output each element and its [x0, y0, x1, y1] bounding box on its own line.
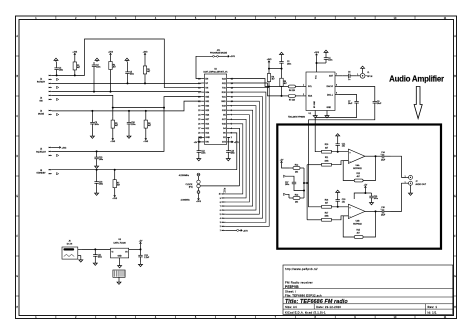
pin 6 U1 GND — [326, 111, 328, 115]
pin 11 U2 right G21 — [227, 96, 230, 98]
capacitor C2 — [279, 56, 291, 69]
svg-text:4k7: 4k7 — [117, 185, 120, 187]
pin 17 U2 left VP — [201, 82, 204, 84]
wire outB to jack — [391, 183, 407, 211]
svg-text:2: 2 — [231, 137, 232, 139]
svg-text:10n: 10n — [342, 146, 345, 148]
wire JP1 net — [218, 55, 226, 57]
svg-text:100n: 100n — [374, 198, 378, 200]
frame column tick 1 — [55, 16, 57, 20]
svg-text:R12: R12 — [356, 173, 359, 175]
wire SQUELCH net — [52, 97, 202, 152]
svg-text:1: 1 — [357, 74, 358, 76]
svg-text:100n: 100n — [201, 152, 205, 154]
pin 19 U2 left G34 — [201, 91, 204, 93]
svg-text:R17: R17 — [325, 212, 328, 214]
svg-text:Rev: 1: Rev: 1 — [428, 305, 438, 309]
pin 1 J3 — [49, 95, 52, 96]
pin 29 U2 left GND — [201, 136, 204, 138]
pin 24 U2 left G26 — [201, 114, 204, 116]
svg-text:PROGRAM MODE: PROGRAM MODE — [210, 52, 228, 55]
svg-text:24: 24 — [198, 115, 200, 117]
junction — [128, 110, 130, 112]
wire R5 tie — [113, 107, 164, 109]
audio amplifier section box — [277, 125, 441, 249]
svg-text:R12: R12 — [295, 164, 298, 166]
capacitor C19 — [369, 193, 378, 201]
no-connect arrow — [57, 173, 59, 175]
svg-text:Title: TEF6686 FM radio: Title: TEF6686 FM radio — [285, 299, 348, 305]
power +3V3 — [108, 52, 114, 57]
power +3V3 — [72, 52, 78, 57]
wire jack gnd — [410, 185, 412, 191]
pin 1 J2 — [49, 75, 52, 76]
resistor R2 — [109, 57, 116, 92]
pin 13 U2 right TX0 — [227, 87, 230, 89]
svg-text:KiCad E.D.A. kicad (5.1.9)-1: KiCad E.D.A. kicad (5.1.9)-1 — [285, 310, 326, 314]
module U2 DOIT_ESP32_DEVKIT_V1 — [203, 69, 228, 145]
svg-text:J1: J1 — [367, 72, 369, 74]
wire R10 to +inA — [331, 151, 348, 153]
capacitor C11 — [336, 138, 346, 152]
wire bus7 U2-J8 — [226, 97, 263, 219]
svg-text:9: 9 — [220, 198, 221, 200]
pin 6 U2 right G17 — [227, 118, 230, 120]
junction — [140, 248, 142, 250]
junction — [303, 190, 305, 192]
resistor R13 — [289, 194, 304, 203]
wire bus9 U2-J8 — [226, 88, 270, 227]
no-connect arrow — [57, 154, 59, 156]
wire SCL from U2 — [230, 79, 282, 87]
capacitor C10 — [127, 111, 136, 135]
connector J2 ROTARY — [37, 79, 46, 84]
pin 9 U2 right G19 — [227, 105, 230, 107]
wire STANDBY drop — [230, 133, 237, 170]
svg-text:VIN: VIN — [205, 142, 209, 144]
resistor R12 — [289, 164, 304, 173]
svg-text:100n: 100n — [98, 256, 102, 258]
svg-text:4k7: 4k7 — [284, 83, 287, 85]
pin 5 J8 — [222, 213, 226, 215]
svg-text:100n: 100n — [99, 183, 103, 185]
junction — [364, 192, 366, 194]
wire ROTARY-A net — [52, 39, 202, 88]
wire to C1 — [317, 62, 327, 64]
svg-text:DAC-R: DAC-R — [327, 85, 334, 88]
jumper P2 CLOCK — [186, 180, 201, 189]
svg-text:100n: 100n — [99, 159, 103, 161]
pin 30 U2 left VIN — [201, 141, 204, 143]
junction — [163, 107, 165, 109]
junction — [91, 110, 93, 112]
svg-text:23: 23 — [198, 110, 200, 112]
pin 4 J8 — [222, 217, 226, 219]
pin 7 J8 — [222, 205, 226, 207]
ground — [324, 50, 328, 54]
capacitor C16 — [376, 207, 391, 216]
svg-text:28: 28 — [198, 133, 200, 135]
svg-text:J7: J7 — [416, 181, 418, 183]
module U1 TEF6686 radio — [288, 72, 335, 118]
pin 4 J2 — [49, 87, 52, 88]
frame column tick 2 — [95, 16, 97, 20]
ground — [313, 114, 317, 118]
wire outB — [365, 210, 376, 212]
pin 23 U2 left G25 — [201, 109, 204, 111]
svg-text:20k: 20k — [295, 171, 298, 173]
svg-text:100n: 100n — [231, 152, 235, 154]
port arrow AF-L — [284, 175, 286, 177]
connector J6 DC IN barrel jack — [62, 240, 78, 259]
pin 2 J9 — [49, 173, 52, 174]
capacitor C4 — [92, 62, 101, 92]
resistor R17 — [322, 212, 332, 221]
pin 4 U2 right G4 — [227, 127, 230, 129]
resistor R9 — [280, 69, 287, 96]
ground — [336, 190, 340, 194]
junction — [281, 95, 283, 97]
svg-text:4k7: 4k7 — [325, 147, 328, 149]
pin 7 U2 right G5 — [227, 114, 230, 116]
svg-text:4.2156MHz: 4.2156MHz — [179, 175, 189, 177]
svg-text:17: 17 — [198, 83, 200, 85]
svg-text:100n: 100n — [59, 70, 63, 72]
svg-text:8: 8 — [336, 85, 337, 87]
resistor R5 — [111, 116, 118, 136]
wire bus8 U2-J8 — [226, 92, 266, 222]
wire Vin — [82, 248, 111, 250]
port arrow AF-R — [284, 193, 286, 195]
ground — [54, 58, 58, 62]
frame column tick 8 — [334, 16, 336, 20]
pin 21 U2 left G32 — [201, 100, 204, 102]
pin 7 U1 ANT — [335, 75, 339, 77]
resistor R7 — [113, 170, 120, 194]
svg-text:1: 1 — [220, 230, 221, 232]
junction — [316, 62, 318, 64]
wire ROTARY-B net — [52, 82, 202, 84]
wire DAC-R into amp — [309, 108, 375, 207]
frame row tick B — [16, 95, 20, 97]
svg-text:100n: 100n — [131, 124, 135, 126]
ground — [409, 192, 413, 196]
svg-text:7: 7 — [336, 74, 337, 76]
no-connect arrow — [57, 86, 59, 88]
capacitor C15 — [94, 151, 103, 164]
wire ROTARY-C net — [52, 91, 202, 93]
wire MODE net — [52, 101, 202, 111]
wire C17 low — [294, 187, 304, 191]
pin 3 J5 — [49, 155, 52, 156]
wire bus3 U2-J8 — [226, 115, 250, 202]
ground — [90, 135, 94, 139]
junction — [281, 68, 283, 70]
capacitor C22 — [138, 249, 150, 262]
wire fbB return — [363, 211, 375, 237]
wire bias to R17 — [307, 219, 322, 221]
svg-text:1: 1 — [303, 85, 304, 87]
svg-text:Id: 1/1: Id: 1/1 — [428, 310, 437, 314]
wire fbB — [343, 216, 354, 237]
pin 1 J5 — [49, 147, 52, 148]
svg-text:R16: R16 — [325, 199, 328, 201]
junction — [94, 248, 96, 250]
wire bias chain — [303, 168, 305, 198]
svg-text:4k7: 4k7 — [325, 203, 328, 205]
svg-text:MCP6022: MCP6022 — [353, 168, 361, 170]
frame row tick G — [16, 295, 20, 297]
jumper pad — [237, 229, 239, 231]
pin 5 U1 BP-GND — [314, 111, 316, 115]
power +3V3 — [314, 52, 320, 57]
svg-text:GND: GND — [205, 137, 210, 139]
svg-text:C6: C6 — [348, 72, 350, 74]
power +3V3 — [143, 137, 149, 144]
capacitor C14 — [376, 152, 391, 161]
pin U3 gnd — [119, 258, 121, 264]
svg-text:BP-GND: BP-GND — [314, 100, 316, 108]
power +3V3 — [196, 197, 202, 204]
connector J3 SW — [39, 98, 43, 103]
frame column tick 6 — [254, 16, 256, 20]
svg-text:4k7: 4k7 — [77, 67, 80, 69]
power +5V — [199, 141, 202, 143]
wire STANDBY net — [52, 169, 237, 171]
frame row tick A — [16, 55, 20, 57]
pin 18 U2 left VN — [201, 87, 204, 89]
ground — [95, 165, 99, 169]
capacitor C18 — [336, 194, 346, 207]
junction — [306, 182, 308, 184]
wire fbA — [343, 161, 354, 181]
resistor R16 — [322, 199, 332, 208]
ground — [197, 157, 201, 161]
crystal Y1 4.2156MHz — [179, 173, 200, 180]
svg-text:Size: A4: Size: A4 — [285, 305, 297, 309]
pin 2 J6 — [78, 255, 81, 257]
svg-text:File: TEF6686 ESP32.sch: File: TEF6686 ESP32.sch — [285, 293, 322, 297]
wire +5V bias — [282, 165, 290, 169]
svg-text:4k7: 4k7 — [357, 176, 360, 178]
ground — [93, 262, 97, 266]
resistor R10 — [322, 144, 332, 153]
crystal Y2 4.000MHz — [181, 188, 200, 202]
svg-text:3: 3 — [220, 222, 221, 224]
resistor R1 — [73, 57, 80, 76]
svg-text:4k7: 4k7 — [115, 125, 118, 127]
pin 1 J6 — [78, 248, 82, 250]
svg-text:18: 18 — [198, 87, 200, 89]
wire bias tap — [304, 182, 307, 184]
junction — [56, 74, 58, 76]
svg-text:[P2]: [P2] — [189, 187, 193, 189]
frame column tick 9 — [374, 16, 376, 20]
power +3V3 — [239, 229, 249, 232]
junction — [112, 107, 114, 109]
ground — [118, 264, 122, 268]
ground — [226, 157, 230, 161]
svg-text:GND: GND — [221, 101, 226, 103]
svg-text:Audio Amplifier: Audio Amplifier — [389, 75, 444, 84]
junction — [96, 150, 98, 152]
junction — [114, 169, 116, 171]
wire R11 to -inA — [331, 161, 348, 165]
pin 2 U2 right G2 — [227, 136, 230, 138]
svg-text:19: 19 — [198, 92, 200, 94]
power +3V3 — [112, 194, 118, 201]
wire DAC-L into amp — [315, 108, 356, 152]
wire SDA from U2 — [230, 83, 282, 96]
svg-text:DOIT_ESP32_DEVKIT_V1: DOIT_ESP32_DEVKIT_V1 — [203, 72, 228, 74]
power +5V — [364, 185, 368, 190]
pin 12 U2 right RX0 — [227, 91, 230, 93]
capacitor C3 — [54, 62, 63, 75]
pin 27 U2 left G12 — [201, 127, 204, 129]
svg-text:4k7: 4k7 — [113, 66, 116, 68]
pin 10 J8 — [222, 193, 226, 195]
wire fbA return — [363, 156, 375, 180]
svg-text:GND: GND — [118, 255, 123, 257]
pin 20 U2 left G35 — [201, 96, 204, 98]
pin 1 J4 — [49, 110, 52, 111]
no-connect arrow — [57, 98, 59, 100]
wire bus4 U2-J8 — [226, 110, 253, 206]
wire 5V out — [140, 246, 142, 250]
title block text — [285, 267, 437, 315]
pin 16 U2 left EN — [201, 78, 204, 80]
junction — [375, 210, 377, 212]
junction — [144, 82, 146, 84]
svg-text:G: G — [454, 275, 456, 278]
svg-text:2: 2 — [303, 94, 304, 96]
svg-text:22: 22 — [198, 106, 200, 108]
wire outA — [365, 155, 376, 157]
svg-text:100n: 100n — [96, 67, 100, 69]
regulator U3 LM78 TO220 — [111, 239, 129, 258]
connector J8 STANDBY — [36, 170, 46, 175]
pin 1 U2 right 3V3 — [227, 141, 230, 143]
connector J1 RF IN — [356, 72, 373, 78]
svg-text:2: 2 — [220, 226, 221, 228]
svg-text:2: 2 — [405, 182, 406, 184]
svg-text:R7 220: R7 220 — [289, 99, 295, 101]
svg-text:MCP6022: MCP6022 — [353, 223, 361, 225]
ground — [336, 134, 340, 138]
pin 2 J8 — [222, 225, 226, 227]
power GND arrow left — [199, 136, 201, 138]
svg-text:8: 8 — [220, 202, 221, 204]
ground — [280, 52, 284, 56]
power +5V — [280, 160, 284, 165]
junction — [110, 91, 112, 93]
svg-text:PE5PVB: PE5PVB — [285, 285, 299, 289]
wire 3V3 pullup drop — [268, 64, 270, 69]
big hollow arrow — [414, 87, 422, 119]
svg-text:http://www.pe5pvb.nl/: http://www.pe5pvb.nl/ — [285, 267, 318, 271]
svg-text:6: 6 — [220, 210, 221, 212]
frame row tick E — [16, 215, 20, 217]
pin 5 J2 — [49, 91, 52, 92]
title block — [283, 265, 453, 314]
svg-text:AUDIO OUT: AUDIO OUT — [416, 183, 427, 186]
svg-text:C: C — [454, 115, 456, 118]
svg-text:10n: 10n — [342, 201, 345, 203]
frame column tick 3 — [135, 16, 137, 20]
wire CLOCK net — [200, 185, 239, 187]
svg-text:C16: C16 — [381, 207, 384, 209]
wire bus1 U2-J8 — [226, 124, 243, 194]
pin 9 J8 — [222, 197, 226, 199]
junction — [337, 206, 339, 208]
wire V+ U4B — [354, 193, 365, 199]
connector J5 SQUELCH — [36, 149, 46, 154]
no-connect arrow — [57, 113, 59, 115]
wire bus5 U2-J8 — [226, 106, 256, 210]
junction — [303, 182, 305, 184]
svg-text:100k: 100k — [324, 216, 328, 218]
svg-text:R4 220: R4 220 — [289, 90, 295, 92]
svg-text:R11: R11 — [325, 157, 328, 159]
wire outA to jack — [391, 156, 407, 177]
power +3V3 — [58, 146, 68, 149]
wire DAC-R — [339, 87, 375, 97]
svg-text:SQUELCH: SQUELCH — [36, 151, 46, 153]
wire VCC U1 — [316, 57, 318, 68]
capacitor C13 — [226, 146, 235, 157]
power +5V — [139, 241, 143, 246]
frame row tick C — [16, 135, 20, 137]
svg-text:2.2uF: 2.2uF — [144, 257, 150, 259]
pin 8 U1 DAC-R — [335, 86, 339, 88]
capacitor C17 — [285, 179, 296, 187]
svg-text:DAC-L: DAC-L — [327, 93, 334, 96]
resistor R4 — [282, 85, 302, 92]
svg-text:TD6-230V HP6686: TD6-230V HP6686 — [288, 116, 306, 118]
resistor R14 — [354, 173, 363, 182]
pin 6 J8 — [222, 209, 226, 211]
wire JP1 to EN — [196, 56, 213, 78]
jumper JP1 PROGRAM MODE — [210, 50, 228, 57]
pin 8 J8 — [222, 201, 226, 203]
junction — [127, 82, 129, 84]
svg-text:27: 27 — [198, 128, 200, 130]
svg-text:100n: 100n — [328, 59, 332, 61]
svg-text:R15: R15 — [356, 229, 359, 231]
op-amp U4B MCP6022 — [348, 204, 365, 225]
svg-text:5: 5 — [220, 214, 221, 216]
pin 1 J8 — [222, 229, 226, 231]
frame row tick D — [16, 175, 20, 177]
svg-text:CLOCK: CLOCK — [186, 184, 194, 186]
wire R17 to -inB — [331, 216, 348, 220]
junction — [337, 151, 339, 153]
pin 25 U2 left G27 — [201, 118, 204, 120]
svg-text:SDA: SDA — [308, 95, 313, 98]
wire to C19 — [365, 192, 371, 194]
connector J10 AUDIO OUT — [405, 175, 427, 186]
pin 28 U2 left G13 — [201, 132, 204, 134]
svg-text:SW: SW — [39, 100, 42, 102]
svg-text:100n: 100n — [130, 74, 134, 76]
capacitor C12 — [197, 146, 206, 157]
wire port L — [286, 176, 294, 179]
pin 4 U1 VCC — [316, 68, 318, 72]
connector J8 display header — [223, 188, 226, 193]
resistor R6 — [144, 111, 151, 137]
svg-text:100n: 100n — [285, 184, 289, 186]
frame column tick 5 — [215, 16, 217, 20]
